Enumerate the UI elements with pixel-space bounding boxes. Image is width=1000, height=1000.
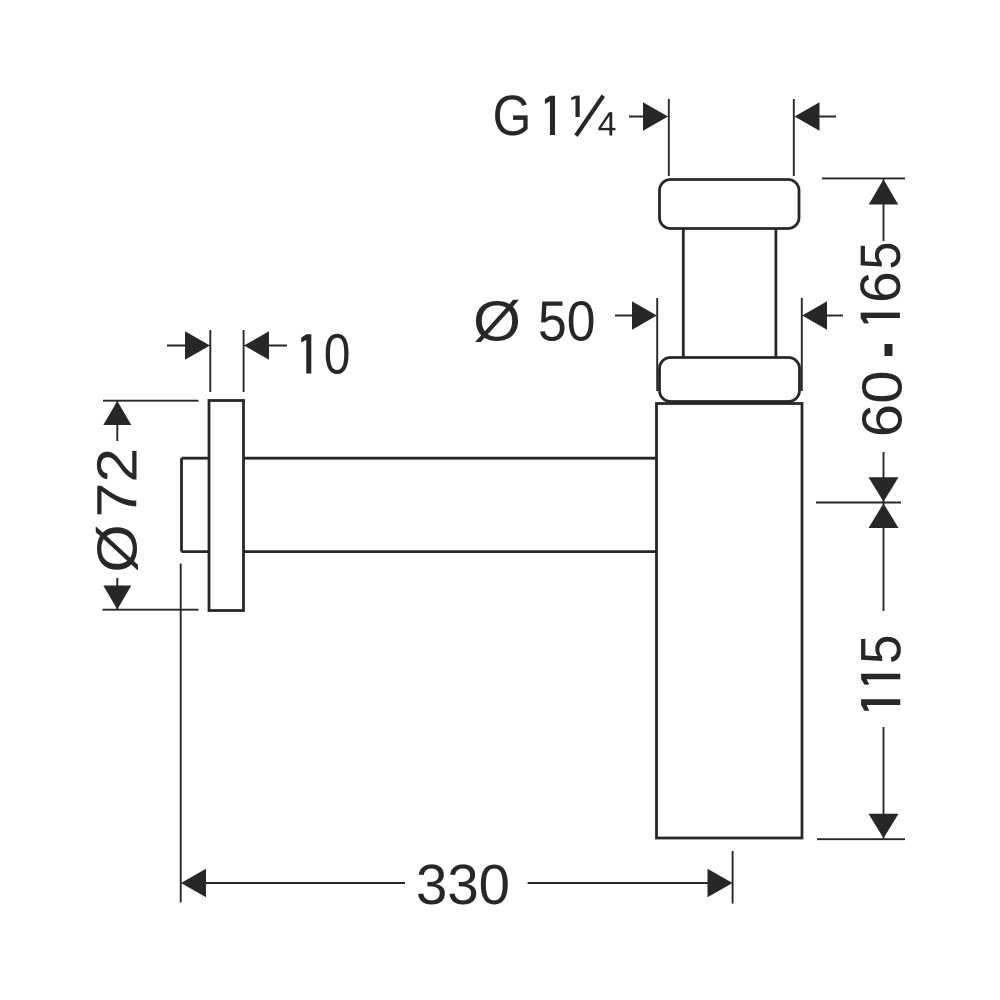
wall flange — [209, 401, 244, 611]
dimension 10 left extension line — [209, 330, 211, 392]
dimension Ø50 right tail line — [827, 315, 843, 317]
dimension 330 left extension line — [180, 564, 182, 903]
dimension 115 lower dimension line — [883, 727, 885, 838]
dimension Ø72 upper dimension line — [116, 401, 118, 441]
lower nut — [660, 358, 800, 402]
dimension 10 left arrowhead — [185, 331, 210, 360]
dimension Ø72 bottom extension line — [103, 609, 199, 611]
dimension Ø72 lower dimension line — [116, 578, 118, 610]
svg-text:72: 72 — [86, 448, 150, 518]
dimension G1 1/4 left arrowhead — [643, 102, 668, 131]
svg-text:Ø: Ø — [86, 524, 150, 573]
horizontal inlet pipe bottom edge — [182, 550, 657, 553]
dimension G1 1/4 right tail line — [820, 116, 837, 118]
dimension 60-165 top arrowhead — [869, 179, 898, 204]
svg-text:Ø: Ø — [473, 290, 521, 354]
dimension Ø50 left extension line — [656, 298, 658, 391]
dimension 115 bottom arrowhead — [869, 814, 899, 839]
trap body cup — [657, 404, 803, 839]
top nut — [660, 180, 800, 229]
dimension 330 left arrowhead — [181, 869, 206, 898]
horizontal inlet pipe top edge — [182, 457, 657, 460]
dimension Ø50 right extension line — [801, 298, 803, 391]
dimension Ø72 top extension line — [103, 400, 199, 402]
dimension 60-165 top extension line — [822, 177, 905, 179]
dimension G1 1/4 label — [495, 95, 615, 135]
shared middle extension line — [816, 502, 901, 504]
dimension 60-165 upper dimension line — [883, 179, 885, 241]
dimension 60-165 lower dimension line — [883, 452, 885, 502]
dimension Ø72 bottom arrowhead — [103, 586, 131, 610]
dimension G1 1/4 left extension line — [668, 99, 670, 176]
dimension 330 right extension line — [732, 851, 734, 904]
svg-text:60: 60 — [851, 370, 915, 437]
dimension G1 1/4 right arrowhead — [795, 102, 820, 131]
dimension 330 right dimension line — [528, 882, 708, 884]
dimension 115 top arrowhead — [869, 503, 899, 528]
dimension 10 right arrowhead — [244, 331, 269, 360]
dimension G1 1/4 right extension line — [793, 99, 795, 176]
upper vertical pipe left edge — [682, 229, 685, 358]
dimension 115 bottom extension line — [817, 838, 905, 840]
dimension 115 upper dimension line — [883, 503, 885, 611]
dimension 330 right arrowhead — [708, 869, 733, 898]
dimension 10 left tail line — [167, 345, 186, 347]
svg-text:330: 330 — [416, 853, 510, 917]
horizontal inlet pipe wall end cap — [180, 458, 183, 551]
dimension Ø50 right arrowhead — [802, 301, 827, 330]
dimension 60-165 label hyphen — [885, 344, 893, 356]
dimension 60-165 label "165" (rotated) — [860, 244, 900, 324]
dimension G1 1/4 left tail line — [629, 116, 648, 118]
dimension 10 right tail line — [269, 345, 287, 347]
upper vertical pipe right edge — [775, 229, 778, 358]
dimension Ø50 left arrowhead — [632, 301, 657, 330]
dimension 10 right extension line — [243, 330, 245, 392]
dimension 330 left dimension line — [206, 882, 405, 884]
dimension 115 label (rotated) — [861, 637, 901, 711]
svg-text:50: 50 — [538, 290, 595, 354]
dimension 10 label — [301, 334, 348, 374]
dimension Ø50 left tail line — [615, 315, 635, 317]
dimension 60-165 bottom arrowhead — [869, 477, 899, 502]
dimension Ø72 top arrowhead — [103, 401, 131, 425]
